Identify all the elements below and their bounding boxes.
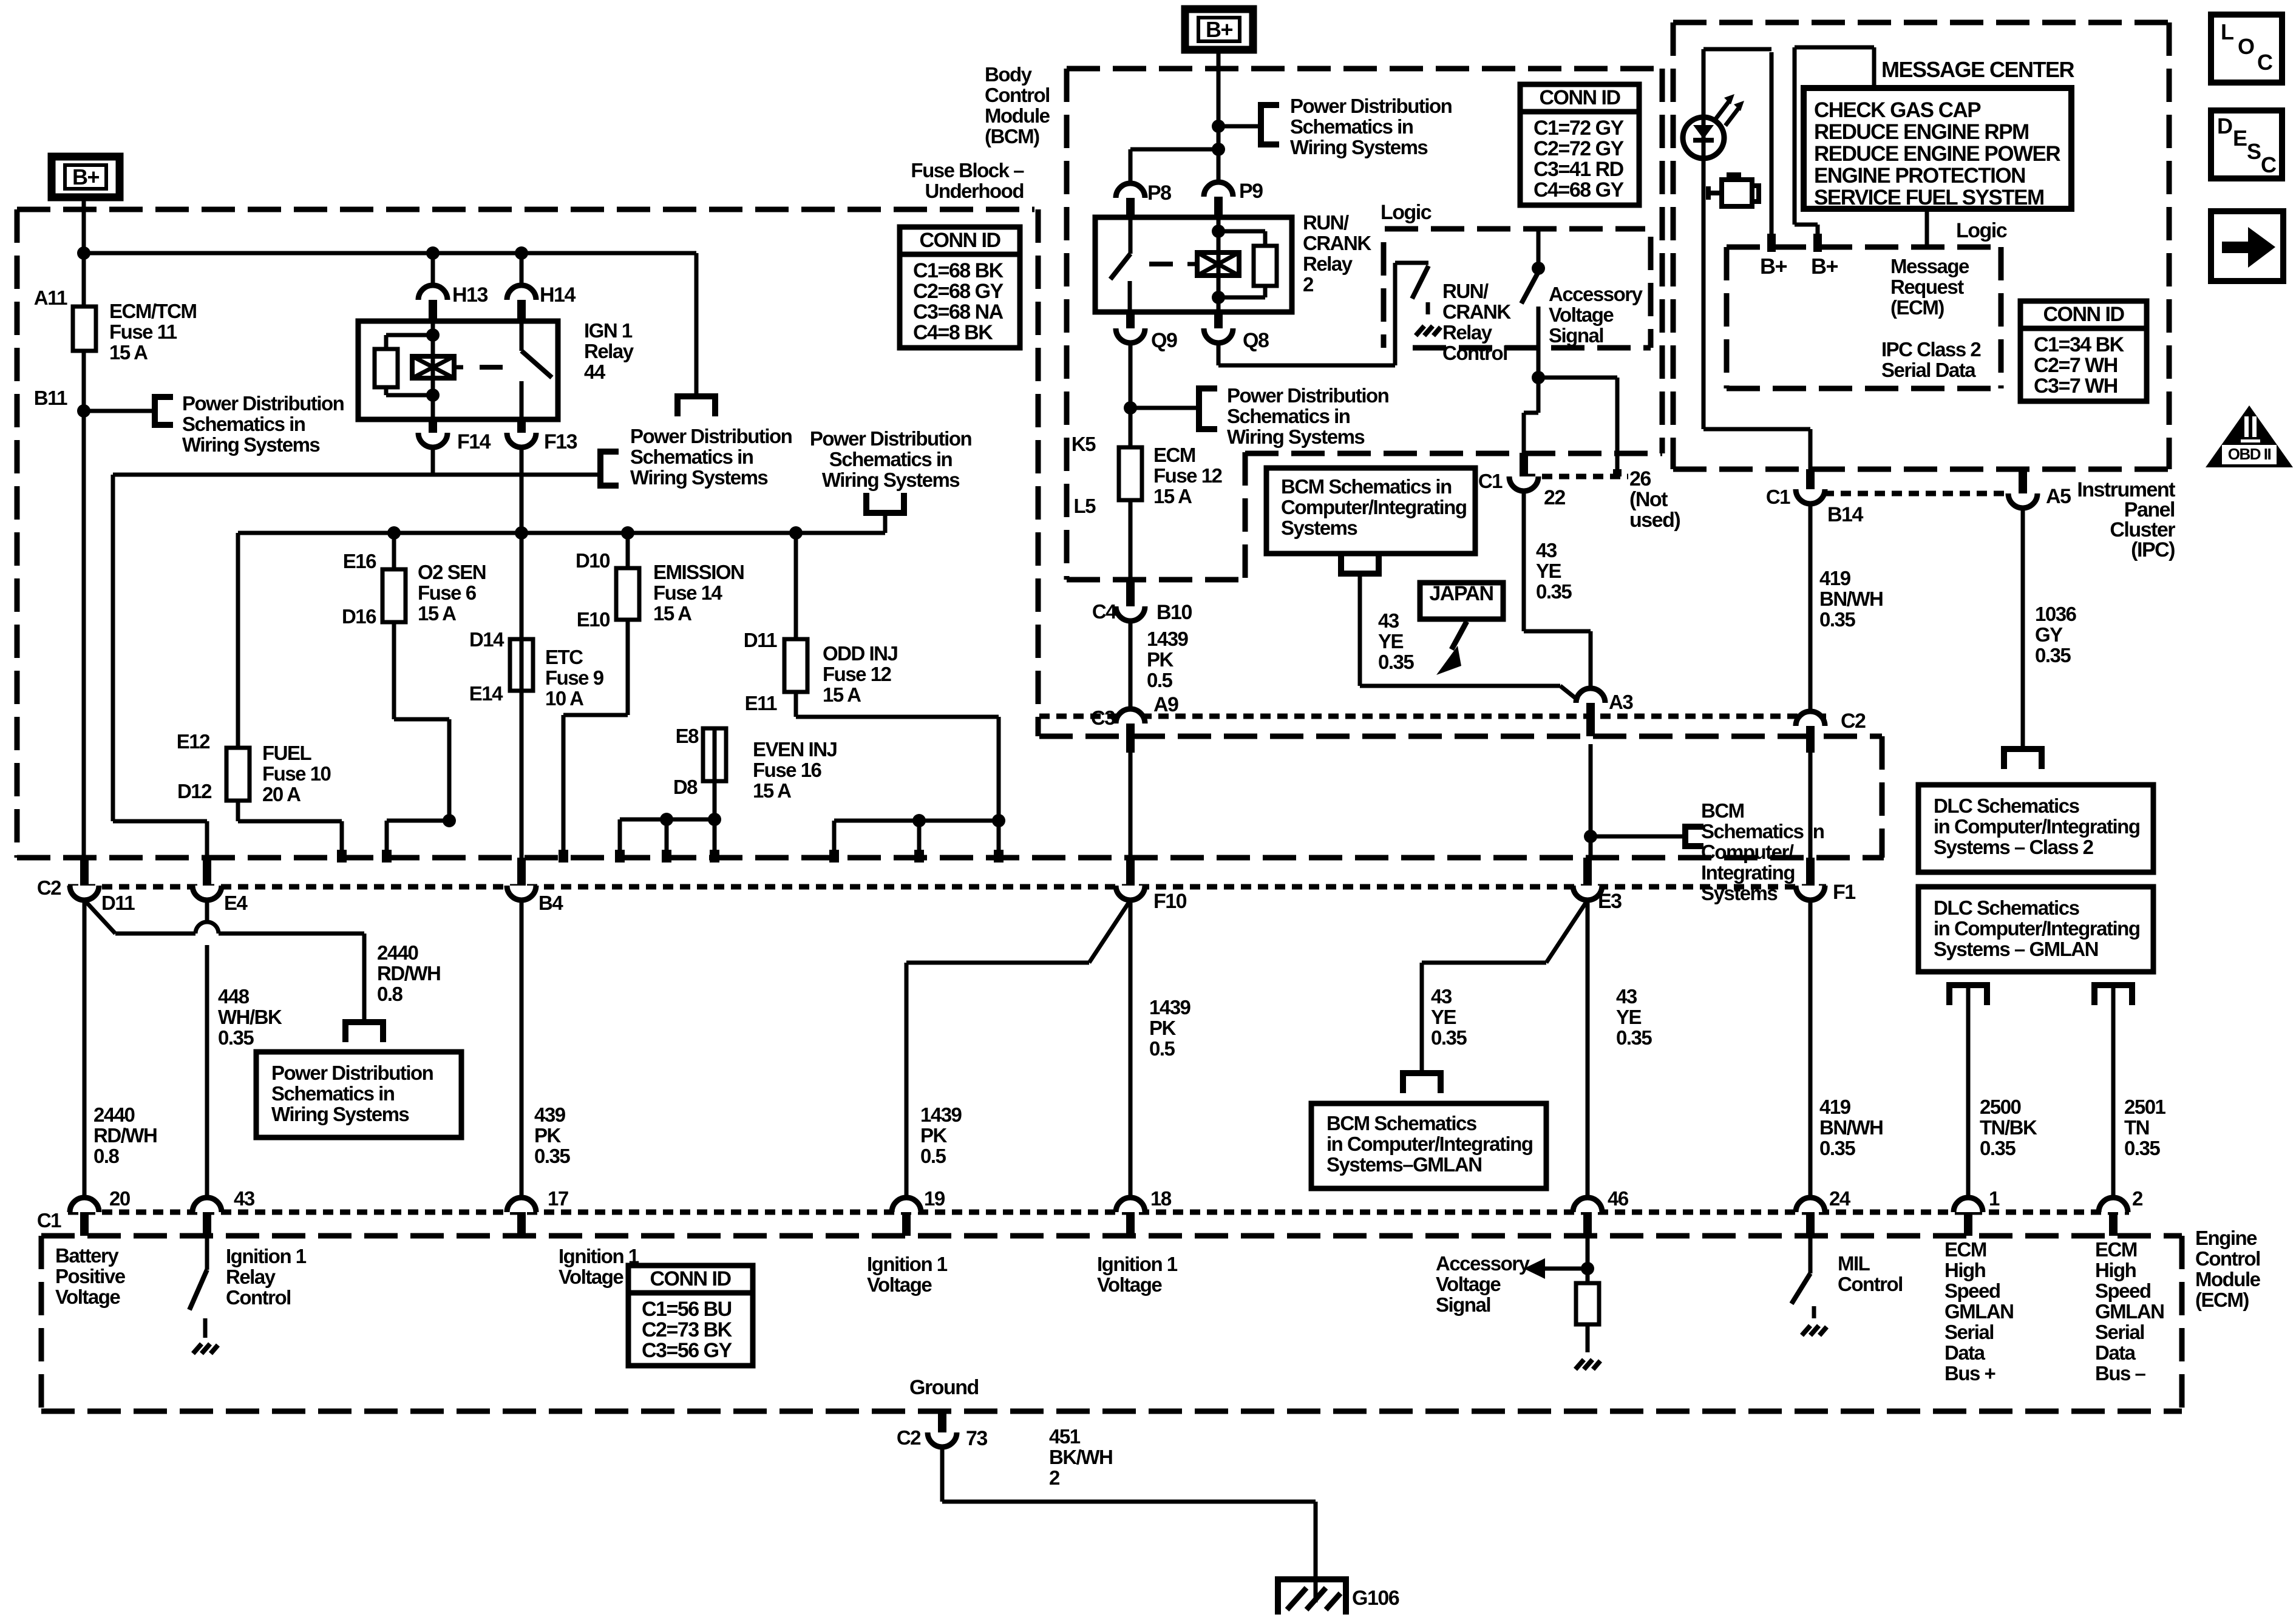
svg-text:2: 2 bbox=[1049, 1466, 1060, 1489]
svg-text:Fuse 10: Fuse 10 bbox=[262, 762, 331, 785]
svg-text:BN/WH: BN/WH bbox=[1819, 588, 1883, 610]
svg-text:0.35: 0.35 bbox=[1616, 1026, 1652, 1049]
svg-text:Schematics in: Schematics in bbox=[1701, 820, 1824, 842]
svg-text:DLC Schematics: DLC Schematics bbox=[1934, 896, 2079, 919]
svg-text:B+: B+ bbox=[72, 164, 99, 189]
svg-text:IPC Class 2: IPC Class 2 bbox=[1881, 338, 1981, 361]
svg-text:B4: B4 bbox=[538, 892, 563, 914]
svg-text:C: C bbox=[2261, 152, 2277, 177]
svg-text:E16: E16 bbox=[343, 550, 376, 572]
svg-text:448: 448 bbox=[218, 985, 250, 1008]
svg-text:Request: Request bbox=[1890, 276, 1964, 298]
svg-text:CHECK GAS CAP: CHECK GAS CAP bbox=[1814, 98, 1981, 122]
svg-text:Voltage: Voltage bbox=[867, 1273, 932, 1296]
svg-text:BK/WH: BK/WH bbox=[1049, 1446, 1112, 1468]
svg-text:Logic: Logic bbox=[1381, 201, 1432, 224]
svg-text:ETC: ETC bbox=[545, 646, 583, 668]
svg-text:C3=68 NA: C3=68 NA bbox=[913, 300, 1004, 324]
svg-text:Fuse Block –: Fuse Block – bbox=[911, 159, 1024, 181]
svg-text:Logic: Logic bbox=[1956, 219, 2007, 242]
svg-text:in Computer/Integrating: in Computer/Integrating bbox=[1326, 1133, 1533, 1155]
svg-text:E3: E3 bbox=[1598, 890, 1622, 913]
svg-text:43: 43 bbox=[1431, 985, 1452, 1008]
svg-text:2501: 2501 bbox=[2124, 1096, 2166, 1118]
svg-text:Schematics in: Schematics in bbox=[1227, 405, 1350, 427]
svg-text:F1: F1 bbox=[1833, 881, 1855, 904]
svg-text:Data: Data bbox=[1944, 1341, 1986, 1364]
svg-text:Underhood: Underhood bbox=[925, 180, 1024, 202]
svg-text:Schematics in: Schematics in bbox=[1290, 115, 1413, 138]
svg-text:1036: 1036 bbox=[2035, 603, 2077, 625]
svg-text:L5: L5 bbox=[1073, 495, 1096, 517]
svg-text:Systems: Systems bbox=[1701, 882, 1777, 904]
svg-text:L: L bbox=[2221, 19, 2233, 44]
svg-text:Schematics in: Schematics in bbox=[829, 448, 953, 470]
svg-text:C2: C2 bbox=[37, 876, 61, 899]
svg-text:Message: Message bbox=[1890, 255, 1969, 277]
svg-text:C1=34 BK: C1=34 BK bbox=[2034, 333, 2125, 356]
svg-text:B10: B10 bbox=[1156, 601, 1192, 624]
svg-text:Voltage: Voltage bbox=[55, 1286, 120, 1308]
svg-text:RUN/: RUN/ bbox=[1442, 280, 1489, 302]
svg-text:2: 2 bbox=[1303, 273, 1314, 296]
svg-text:A5: A5 bbox=[2046, 485, 2071, 508]
svg-text:Serial: Serial bbox=[2095, 1321, 2144, 1343]
svg-text:CRANK: CRANK bbox=[1442, 300, 1511, 323]
svg-text:0.35: 0.35 bbox=[1431, 1026, 1467, 1049]
svg-text:2: 2 bbox=[2132, 1187, 2143, 1210]
svg-text:PK: PK bbox=[534, 1124, 562, 1147]
svg-text:E10: E10 bbox=[577, 608, 610, 631]
svg-text:F13: F13 bbox=[544, 430, 577, 453]
svg-text:High: High bbox=[2095, 1259, 2136, 1281]
svg-text:0.35: 0.35 bbox=[1819, 608, 1855, 631]
svg-text:CONN ID: CONN ID bbox=[919, 229, 1000, 252]
svg-text:ECM: ECM bbox=[1944, 1238, 1986, 1261]
svg-text:CONN ID: CONN ID bbox=[650, 1267, 731, 1290]
svg-text:CRANK: CRANK bbox=[1303, 232, 1371, 254]
svg-text:0.35: 0.35 bbox=[1980, 1137, 2016, 1159]
svg-text:Voltage: Voltage bbox=[1097, 1273, 1162, 1296]
svg-text:D14: D14 bbox=[469, 628, 504, 651]
svg-text:YE: YE bbox=[1616, 1006, 1642, 1028]
svg-text:Voltage: Voltage bbox=[1549, 303, 1614, 326]
svg-text:20 A: 20 A bbox=[262, 783, 301, 805]
svg-text:ECM: ECM bbox=[2095, 1238, 2137, 1261]
svg-text:BCM: BCM bbox=[1701, 799, 1744, 822]
svg-text:0.35: 0.35 bbox=[2124, 1137, 2160, 1159]
svg-text:C1=68 BK: C1=68 BK bbox=[913, 259, 1004, 282]
svg-text:D11: D11 bbox=[101, 892, 135, 914]
svg-text:Power Distribution: Power Distribution bbox=[630, 425, 792, 447]
svg-text:D11: D11 bbox=[744, 629, 777, 651]
svg-text:H14: H14 bbox=[540, 283, 576, 307]
svg-text:Control: Control bbox=[2195, 1247, 2260, 1270]
svg-text:Wiring Systems: Wiring Systems bbox=[1290, 136, 1427, 158]
svg-text:C3=41 RD: C3=41 RD bbox=[1533, 158, 1624, 181]
svg-text:17: 17 bbox=[548, 1187, 568, 1210]
svg-text:C1: C1 bbox=[1766, 486, 1790, 508]
svg-text:C1=56 BU: C1=56 BU bbox=[642, 1298, 732, 1321]
svg-text:CONN ID: CONN ID bbox=[1539, 86, 1620, 109]
svg-text:E11: E11 bbox=[745, 692, 778, 714]
svg-text:0.5: 0.5 bbox=[920, 1145, 946, 1167]
svg-text:1439: 1439 bbox=[920, 1103, 962, 1126]
svg-text:EMISSION: EMISSION bbox=[653, 561, 744, 583]
svg-text:C2: C2 bbox=[897, 1426, 921, 1449]
svg-text:43: 43 bbox=[1616, 985, 1637, 1008]
svg-text:in Computer/Integrating: in Computer/Integrating bbox=[1934, 815, 2140, 838]
svg-text:B11: B11 bbox=[34, 387, 67, 409]
svg-text:YE: YE bbox=[1378, 630, 1404, 652]
svg-text:ODD INJ: ODD INJ bbox=[823, 642, 898, 665]
svg-text:Power Distribution: Power Distribution bbox=[271, 1062, 433, 1084]
svg-text:Signal: Signal bbox=[1436, 1293, 1490, 1316]
svg-text:Serial Data: Serial Data bbox=[1881, 359, 1976, 381]
svg-text:C2: C2 bbox=[1841, 710, 1866, 733]
svg-text:Fuse 12: Fuse 12 bbox=[1153, 464, 1223, 487]
svg-text:Serial: Serial bbox=[1944, 1321, 1994, 1343]
svg-text:0.35: 0.35 bbox=[218, 1026, 254, 1049]
svg-text:O: O bbox=[2238, 34, 2254, 59]
svg-text:2500: 2500 bbox=[1980, 1096, 2021, 1118]
svg-text:15 A: 15 A bbox=[753, 779, 791, 802]
svg-text:C4=8 BK: C4=8 BK bbox=[913, 321, 993, 344]
svg-text:A9: A9 bbox=[1153, 693, 1178, 716]
svg-text:C2=7 WH: C2=7 WH bbox=[2034, 354, 2118, 377]
svg-text:43: 43 bbox=[234, 1187, 255, 1210]
svg-text:E14: E14 bbox=[469, 682, 503, 705]
svg-text:0.8: 0.8 bbox=[377, 983, 403, 1005]
svg-text:used): used) bbox=[1629, 509, 1680, 532]
svg-text:C2=73 BK: C2=73 BK bbox=[642, 1318, 733, 1341]
svg-text:C2=68 GY: C2=68 GY bbox=[913, 280, 1004, 303]
svg-text:O2 SEN: O2 SEN bbox=[418, 561, 486, 583]
svg-text:B+: B+ bbox=[1760, 254, 1787, 279]
svg-text:E12: E12 bbox=[177, 730, 210, 753]
svg-text:YE: YE bbox=[1431, 1006, 1456, 1028]
svg-text:15 A: 15 A bbox=[653, 602, 691, 625]
svg-text:Control: Control bbox=[1442, 342, 1507, 364]
svg-text:PK: PK bbox=[1147, 648, 1174, 671]
svg-text:GMLAN: GMLAN bbox=[2095, 1300, 2164, 1323]
svg-text:Q9: Q9 bbox=[1151, 329, 1177, 352]
svg-text:15 A: 15 A bbox=[109, 341, 148, 364]
svg-text:Wiring Systems: Wiring Systems bbox=[630, 466, 767, 489]
svg-text:Control: Control bbox=[1838, 1273, 1903, 1295]
svg-text:CONN ID: CONN ID bbox=[2043, 303, 2124, 326]
svg-text:0.35: 0.35 bbox=[1819, 1137, 1855, 1159]
svg-text:FUEL: FUEL bbox=[262, 742, 312, 764]
svg-text:C: C bbox=[2257, 50, 2273, 75]
svg-text:S: S bbox=[2247, 139, 2261, 164]
svg-text:43: 43 bbox=[1536, 539, 1557, 561]
svg-text:Relay: Relay bbox=[226, 1266, 276, 1288]
svg-text:26: 26 bbox=[1629, 467, 1651, 490]
svg-text:419: 419 bbox=[1819, 567, 1851, 589]
svg-text:Relay: Relay bbox=[1303, 252, 1353, 275]
svg-text:22: 22 bbox=[1544, 486, 1565, 509]
svg-text:C3: C3 bbox=[1091, 707, 1115, 729]
svg-text:C4: C4 bbox=[1092, 600, 1117, 623]
svg-text:MESSAGE CENTER: MESSAGE CENTER bbox=[1881, 57, 2075, 82]
svg-text:1439: 1439 bbox=[1149, 996, 1191, 1018]
svg-text:BN/WH: BN/WH bbox=[1819, 1116, 1883, 1139]
svg-text:ECM: ECM bbox=[1153, 444, 1195, 466]
svg-text:451: 451 bbox=[1049, 1425, 1081, 1448]
svg-text:D10: D10 bbox=[576, 549, 610, 572]
svg-text:ECM/TCM: ECM/TCM bbox=[109, 300, 196, 322]
svg-text:P9: P9 bbox=[1239, 180, 1263, 203]
svg-text:SERVICE FUEL SYSTEM: SERVICE FUEL SYSTEM bbox=[1814, 186, 2044, 209]
svg-text:E4: E4 bbox=[224, 892, 248, 914]
svg-text:REDUCE ENGINE RPM: REDUCE ENGINE RPM bbox=[1814, 120, 2029, 144]
svg-text:PK: PK bbox=[920, 1124, 948, 1147]
svg-text:Voltage: Voltage bbox=[1436, 1273, 1501, 1295]
svg-text:Body: Body bbox=[985, 63, 1033, 86]
svg-text:K5: K5 bbox=[1072, 433, 1096, 455]
svg-text:(IPC): (IPC) bbox=[2131, 538, 2175, 561]
svg-text:Power Distribution: Power Distribution bbox=[810, 427, 972, 450]
svg-text:0.35: 0.35 bbox=[1378, 651, 1414, 673]
svg-text:1: 1 bbox=[1989, 1187, 2000, 1210]
svg-text:D16: D16 bbox=[342, 605, 376, 628]
svg-text:A11: A11 bbox=[34, 286, 67, 309]
svg-text:Accessory: Accessory bbox=[1549, 283, 1643, 305]
svg-text:B+: B+ bbox=[1206, 17, 1232, 42]
svg-text:JAPAN: JAPAN bbox=[1429, 582, 1493, 605]
svg-text:Speed: Speed bbox=[1944, 1279, 2000, 1302]
svg-text:Systems: Systems bbox=[1281, 517, 1357, 539]
svg-text:B14: B14 bbox=[1827, 503, 1863, 526]
svg-text:0.5: 0.5 bbox=[1149, 1037, 1175, 1060]
svg-text:19: 19 bbox=[924, 1187, 945, 1210]
svg-text:WH/BK: WH/BK bbox=[218, 1006, 282, 1028]
svg-text:43: 43 bbox=[1378, 609, 1399, 632]
svg-text:15 A: 15 A bbox=[418, 602, 456, 625]
svg-text:F10: F10 bbox=[1153, 890, 1187, 913]
svg-text:0.8: 0.8 bbox=[93, 1145, 120, 1167]
svg-text:BCM Schematics: BCM Schematics bbox=[1326, 1112, 1476, 1134]
svg-text:Power Distribution: Power Distribution bbox=[1227, 384, 1389, 407]
svg-text:F14: F14 bbox=[457, 430, 491, 453]
svg-text:RD/WH: RD/WH bbox=[377, 962, 440, 985]
svg-text:TN: TN bbox=[2124, 1116, 2149, 1139]
svg-text:73: 73 bbox=[966, 1427, 987, 1450]
svg-text:Fuse 12: Fuse 12 bbox=[823, 663, 892, 685]
svg-text:C4=68 GY: C4=68 GY bbox=[1533, 178, 1625, 202]
svg-text:Ignition 1: Ignition 1 bbox=[1097, 1253, 1178, 1275]
svg-text:C1: C1 bbox=[37, 1209, 61, 1232]
svg-text:Ignition 1: Ignition 1 bbox=[559, 1245, 639, 1267]
svg-text:BCM Schematics in: BCM Schematics in bbox=[1281, 475, 1452, 498]
svg-text:REDUCE ENGINE POWER: REDUCE ENGINE POWER bbox=[1814, 142, 2060, 166]
svg-text:Battery: Battery bbox=[55, 1244, 119, 1267]
svg-text:in Computer/Integrating: in Computer/Integrating bbox=[1934, 917, 2140, 940]
svg-text:2440: 2440 bbox=[93, 1103, 135, 1126]
svg-text:Fuse 11: Fuse 11 bbox=[109, 320, 177, 343]
svg-text:YE: YE bbox=[1536, 560, 1561, 582]
svg-text:2440: 2440 bbox=[377, 941, 418, 964]
svg-text:Wiring Systems: Wiring Systems bbox=[822, 469, 959, 491]
svg-text:46: 46 bbox=[1608, 1187, 1629, 1210]
svg-text:Bus +: Bus + bbox=[1944, 1362, 1995, 1384]
svg-text:Data: Data bbox=[2095, 1341, 2136, 1364]
svg-text:Module: Module bbox=[2195, 1268, 2261, 1290]
svg-text:Ground: Ground bbox=[909, 1376, 979, 1399]
svg-text:0.5: 0.5 bbox=[1147, 669, 1173, 691]
svg-text:E8: E8 bbox=[676, 725, 699, 747]
svg-text:439: 439 bbox=[534, 1103, 566, 1126]
svg-text:TN/BK: TN/BK bbox=[1980, 1116, 2037, 1139]
svg-text:DLC Schematics: DLC Schematics bbox=[1934, 795, 2079, 817]
svg-text:E: E bbox=[2233, 126, 2247, 151]
svg-text:Positive: Positive bbox=[55, 1265, 126, 1287]
svg-text:Module: Module bbox=[985, 104, 1050, 127]
svg-text:0.35: 0.35 bbox=[2035, 644, 2071, 666]
svg-text:(BCM): (BCM) bbox=[985, 125, 1039, 147]
svg-text:Wiring Systems: Wiring Systems bbox=[271, 1103, 409, 1125]
svg-text:RUN/: RUN/ bbox=[1303, 211, 1349, 234]
svg-text:Schematics in: Schematics in bbox=[271, 1082, 395, 1105]
svg-text:Q8: Q8 bbox=[1243, 329, 1269, 352]
svg-text:Schematics in: Schematics in bbox=[182, 413, 305, 435]
svg-text:GY: GY bbox=[2035, 623, 2063, 646]
svg-text:MIL: MIL bbox=[1838, 1252, 1870, 1275]
svg-text:0.35: 0.35 bbox=[534, 1145, 570, 1167]
svg-text:Bus –: Bus – bbox=[2095, 1362, 2146, 1384]
svg-text:D: D bbox=[2217, 114, 2232, 138]
svg-text:Integrating: Integrating bbox=[1701, 861, 1795, 884]
svg-text:C1: C1 bbox=[1478, 470, 1503, 492]
svg-text:OBD II: OBD II bbox=[2228, 445, 2271, 463]
svg-text:B+: B+ bbox=[1811, 254, 1838, 279]
svg-text:Fuse 6: Fuse 6 bbox=[418, 581, 477, 604]
svg-text:Ignition 1: Ignition 1 bbox=[867, 1253, 948, 1275]
svg-text:18: 18 bbox=[1150, 1187, 1172, 1210]
svg-text:PK: PK bbox=[1149, 1017, 1177, 1039]
svg-text:P8: P8 bbox=[1147, 181, 1171, 205]
svg-text:15 A: 15 A bbox=[823, 683, 861, 706]
svg-text:Systems–GMLAN: Systems–GMLAN bbox=[1326, 1153, 1482, 1176]
svg-text:15 A: 15 A bbox=[1153, 485, 1192, 507]
svg-text:(ECM): (ECM) bbox=[1890, 296, 1944, 319]
svg-text:Ignition 1: Ignition 1 bbox=[226, 1245, 307, 1267]
svg-text:10 A: 10 A bbox=[545, 687, 583, 710]
svg-text:Relay: Relay bbox=[1442, 321, 1493, 344]
svg-text:1439: 1439 bbox=[1147, 628, 1189, 650]
svg-text:C1=72 GY: C1=72 GY bbox=[1533, 117, 1625, 140]
svg-text:(Not: (Not bbox=[1629, 488, 1668, 511]
svg-text:D8: D8 bbox=[673, 776, 698, 798]
svg-text:Relay: Relay bbox=[584, 340, 634, 362]
svg-text:Voltage: Voltage bbox=[559, 1266, 623, 1288]
svg-text:0.35: 0.35 bbox=[1536, 580, 1572, 603]
svg-text:Systems – GMLAN: Systems – GMLAN bbox=[1934, 938, 2098, 960]
svg-text:Accessory: Accessory bbox=[1436, 1252, 1530, 1275]
svg-text:Power Distribution: Power Distribution bbox=[1290, 95, 1452, 117]
svg-text:Wiring Systems: Wiring Systems bbox=[1227, 425, 1364, 448]
svg-text:D12: D12 bbox=[177, 780, 212, 802]
svg-text:24: 24 bbox=[1829, 1187, 1851, 1210]
svg-text:Computer/: Computer/ bbox=[1701, 841, 1794, 863]
svg-text:Signal: Signal bbox=[1549, 324, 1603, 347]
svg-text:A3: A3 bbox=[1609, 691, 1633, 713]
svg-text:Power Distribution: Power Distribution bbox=[182, 392, 344, 415]
svg-text:44: 44 bbox=[584, 361, 606, 383]
svg-text:Control: Control bbox=[226, 1286, 291, 1309]
svg-text:Fuse 14: Fuse 14 bbox=[653, 581, 723, 604]
svg-text:Schematics in: Schematics in bbox=[630, 446, 753, 468]
svg-text:Wiring Systems: Wiring Systems bbox=[182, 433, 319, 456]
svg-text:Fuse 9: Fuse 9 bbox=[545, 666, 604, 689]
svg-text:C3=56 GY: C3=56 GY bbox=[642, 1339, 733, 1362]
svg-text:Speed: Speed bbox=[2095, 1279, 2151, 1302]
svg-text:H13: H13 bbox=[452, 283, 487, 307]
svg-text:419: 419 bbox=[1819, 1096, 1851, 1118]
svg-text:High: High bbox=[1944, 1259, 1986, 1281]
svg-text:RD/WH: RD/WH bbox=[93, 1124, 157, 1147]
svg-text:20: 20 bbox=[109, 1187, 130, 1210]
svg-text:Engine: Engine bbox=[2195, 1227, 2257, 1249]
svg-text:GMLAN: GMLAN bbox=[1944, 1300, 2013, 1323]
svg-text:Fuse 16: Fuse 16 bbox=[753, 759, 822, 781]
svg-text:ENGINE PROTECTION: ENGINE PROTECTION bbox=[1814, 164, 2025, 188]
svg-text:(ECM): (ECM) bbox=[2195, 1289, 2249, 1311]
svg-text:Control: Control bbox=[985, 84, 1050, 106]
svg-text:C3=7 WH: C3=7 WH bbox=[2034, 374, 2118, 398]
svg-text:Systems – Class 2: Systems – Class 2 bbox=[1934, 836, 2094, 858]
svg-text:Computer/Integrating: Computer/Integrating bbox=[1281, 496, 1467, 518]
svg-text:EVEN INJ: EVEN INJ bbox=[753, 738, 837, 761]
svg-text:C2=72 GY: C2=72 GY bbox=[1533, 137, 1625, 160]
svg-text:G106: G106 bbox=[1352, 1587, 1399, 1610]
svg-text:IGN 1: IGN 1 bbox=[584, 319, 633, 342]
